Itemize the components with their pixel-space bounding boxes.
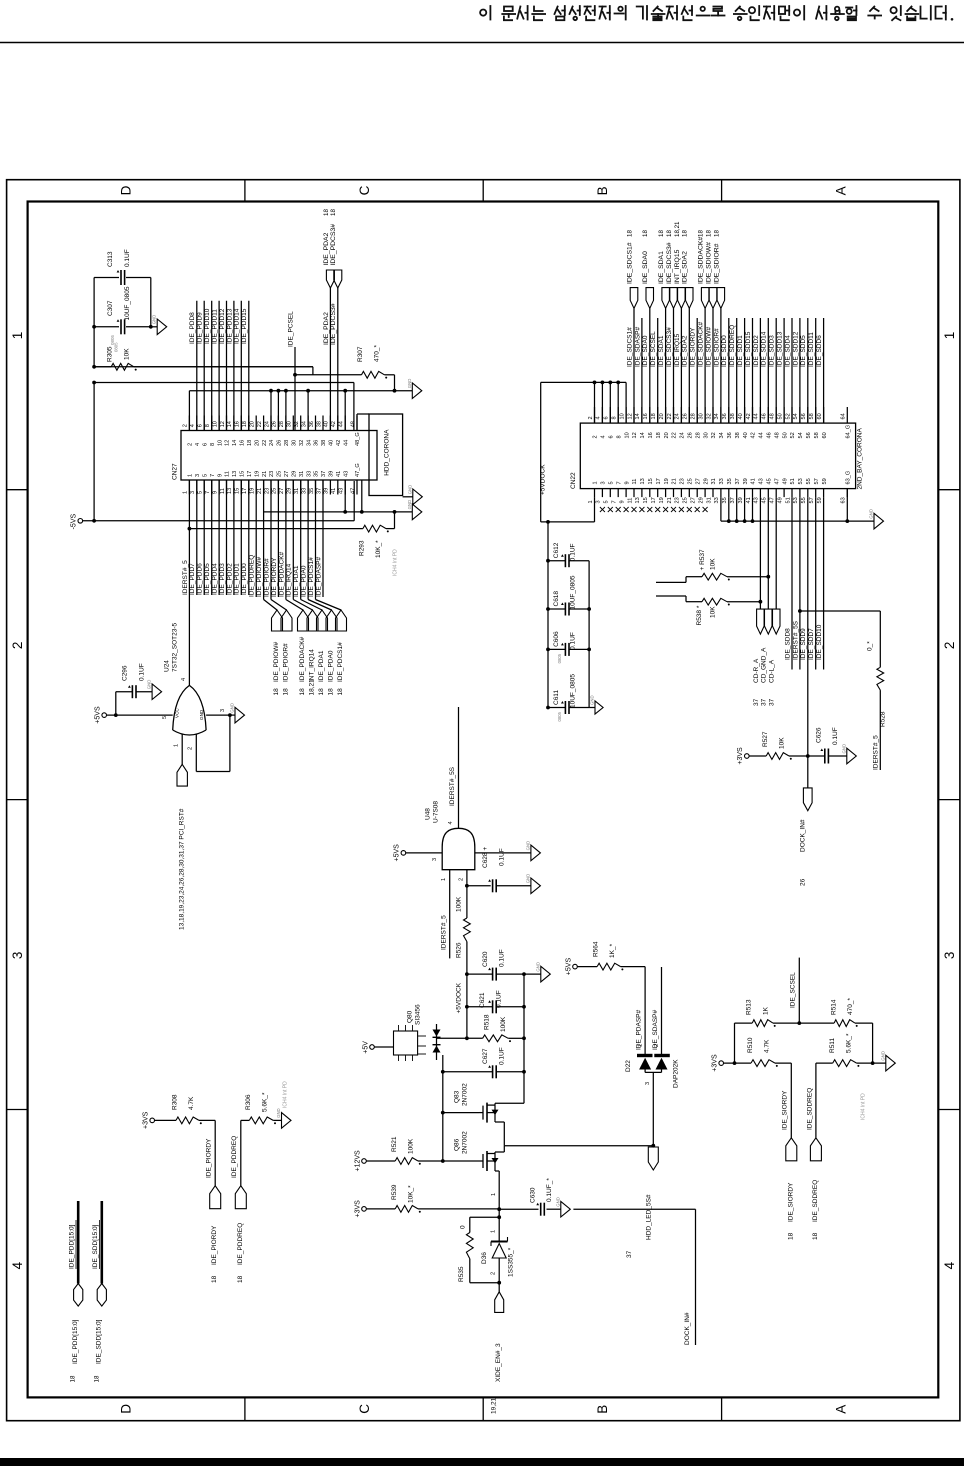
svg-text:31: 31 [294, 488, 300, 494]
svg-text:18: 18 [93, 1375, 100, 1382]
svg-text:IDE_SDIOW#: IDE_SDIOW# [705, 242, 712, 284]
svg-text:60: 60 [817, 413, 823, 419]
svg-text:R528: R528 [880, 711, 887, 727]
svg-text:470_*: 470_* [847, 998, 854, 1015]
svg-text:C606: C606 [553, 631, 560, 647]
svg-text:18: 18 [812, 1232, 819, 1240]
svg-text:15: 15 [235, 488, 241, 494]
svg-text:Q80: Q80 [407, 1010, 414, 1023]
svg-text:GND: GND [555, 1197, 560, 1207]
svg-text:25: 25 [688, 478, 694, 484]
svg-text:10: 10 [619, 413, 625, 419]
svg-text:1: 1 [183, 491, 189, 494]
svg-text:11: 11 [220, 488, 226, 494]
svg-text:33: 33 [306, 471, 312, 477]
svg-text:27: 27 [279, 488, 285, 494]
svg-text:28: 28 [284, 440, 290, 446]
svg-text:R308: R308 [172, 1094, 179, 1110]
svg-text:19: 19 [664, 478, 670, 484]
svg-text:54: 54 [793, 413, 799, 419]
svg-text:IDE_PDA2: IDE_PDA2 [323, 232, 330, 265]
svg-text:IDE_PDDACK#: IDE_PDDACK# [299, 636, 306, 682]
svg-text:10K: 10K [779, 737, 786, 749]
svg-text:R538 *: R538 * [696, 605, 703, 625]
svg-text:IDE_PDD7: IDE_PDD7 [189, 563, 196, 595]
svg-text:C313: C313 [107, 251, 114, 267]
svg-text:+3VS: +3VS [143, 1111, 150, 1129]
svg-text:Q86: Q86 [454, 1138, 461, 1151]
svg-text:38: 38 [321, 440, 327, 446]
svg-text:41: 41 [336, 471, 342, 477]
svg-text:24: 24 [264, 421, 270, 427]
svg-text:45: 45 [762, 497, 768, 503]
svg-text:6: 6 [604, 416, 610, 419]
svg-text:GND: GND [407, 500, 412, 510]
svg-text:IDE_PDD[15:0]: IDE_PDD[15:0] [68, 1224, 75, 1269]
svg-text:IDE_SDDACK#: IDE_SDDACK# [698, 321, 705, 367]
svg-text:+12VS: +12VS [354, 1150, 361, 1172]
svg-text:HDD_CORONA: HDD_CORONA [384, 429, 391, 476]
svg-text:35: 35 [309, 488, 315, 494]
svg-text:10K_*: 10K_* [375, 540, 382, 558]
svg-text:ICH4 Int PD: ICH4 Int PD [393, 549, 399, 576]
svg-text:7: 7 [612, 500, 618, 503]
svg-text:32: 32 [706, 413, 712, 419]
svg-text:3: 3 [601, 481, 607, 484]
svg-text:IDE_SDDREQ: IDE_SDDREQ [812, 1180, 819, 1222]
svg-text:17: 17 [247, 471, 253, 477]
svg-text:3: 3 [432, 858, 438, 861]
svg-text:IDE_PDD11: IDE_PDD11 [212, 309, 219, 344]
svg-text:11: 11 [225, 471, 231, 477]
svg-text:1: 1 [441, 878, 447, 881]
svg-text:43: 43 [343, 471, 349, 477]
svg-text:IDE_PDD0: IDE_PDD0 [241, 563, 248, 595]
svg-text:+5VDOCK: +5VDOCK [539, 464, 546, 495]
svg-text:36: 36 [309, 421, 315, 427]
svg-text:10: 10 [217, 440, 223, 446]
svg-text:18: 18 [658, 230, 665, 237]
svg-text:17: 17 [242, 488, 248, 494]
svg-text:27: 27 [284, 471, 290, 477]
svg-text:2: 2 [491, 1272, 497, 1275]
svg-text:4: 4 [601, 435, 607, 438]
svg-text:44: 44 [754, 413, 760, 419]
svg-text:IDE_SDDACK#: IDE_SDDACK# [698, 237, 705, 284]
svg-text:8: 8 [616, 435, 622, 438]
svg-text:IDERST#_5: IDERST#_5 [873, 735, 880, 770]
svg-text:31: 31 [299, 471, 305, 477]
svg-text:4: 4 [942, 1261, 957, 1269]
svg-text:29: 29 [698, 497, 704, 503]
svg-text:64_G: 64_G [846, 425, 852, 439]
svg-text:33: 33 [301, 488, 307, 494]
svg-text:11: 11 [627, 498, 633, 504]
svg-text:IDE_PDCS3#: IDE_PDCS3# [330, 303, 337, 345]
svg-text:40: 40 [329, 440, 335, 446]
svg-text:GND: GND [590, 695, 595, 705]
svg-text:18: 18 [211, 1275, 218, 1283]
svg-text:2: 2 [458, 878, 464, 881]
svg-text:IDE_SDD13: IDE_SDD13 [777, 331, 784, 367]
svg-text:48: 48 [774, 432, 780, 438]
svg-text:55: 55 [806, 478, 812, 484]
svg-text:4: 4 [596, 416, 602, 419]
svg-text:37: 37 [626, 1250, 633, 1258]
svg-text:23: 23 [264, 488, 270, 494]
svg-text:40: 40 [738, 413, 744, 419]
svg-text:13: 13 [227, 488, 233, 494]
svg-text:U-7S08: U-7S08 [433, 801, 440, 823]
svg-text:25: 25 [277, 471, 283, 477]
svg-text:IDE_PDIOR#: IDE_PDIOR# [263, 558, 270, 597]
svg-text:B: B [595, 1405, 610, 1414]
svg-text:IDE_PDCS1#: IDE_PDCS1# [308, 557, 315, 597]
svg-text:0.1UF: 0.1UF [499, 949, 506, 967]
svg-text:26: 26 [272, 421, 278, 427]
svg-text:2N7002: 2N7002 [462, 1083, 469, 1106]
svg-text:100K: 100K [455, 896, 462, 912]
svg-text:+3VS: +3VS [354, 1200, 361, 1218]
svg-text:37: 37 [321, 471, 327, 477]
svg-text:IDE_PDIOW#: IDE_PDIOW# [273, 642, 280, 682]
svg-text:19: 19 [254, 471, 260, 477]
svg-text:CD-R_A: CD-R_A [753, 658, 760, 683]
svg-text:IDE_PDA0: IDE_PDA0 [301, 565, 308, 597]
svg-text:18: 18 [698, 230, 705, 237]
svg-text:0_*: 0_* [867, 641, 874, 651]
svg-text:100K: 100K [500, 1016, 507, 1032]
svg-text:12: 12 [225, 440, 231, 446]
svg-text:18: 18 [237, 1275, 244, 1283]
svg-text:0.1UF_*: 0.1UF_* [546, 1178, 553, 1202]
svg-text:20: 20 [250, 421, 256, 427]
svg-text:D22: D22 [625, 1060, 632, 1072]
svg-text:0.1UF: 0.1UF [499, 848, 506, 866]
svg-text:10K: 10K [124, 348, 131, 360]
svg-text:4: 4 [190, 424, 196, 427]
svg-text:IDE_SDD15: IDE_SDD15 [745, 331, 752, 367]
svg-text:CD-L_A: CD-L_A [769, 659, 776, 683]
svg-text:A: A [834, 186, 849, 195]
svg-text:48: 48 [770, 413, 776, 419]
svg-text:35: 35 [722, 497, 728, 503]
svg-text:IDE_SDIOR#: IDE_SDIOR# [713, 243, 720, 284]
svg-text:29: 29 [292, 471, 298, 477]
svg-text:0: 0 [460, 1225, 467, 1229]
svg-text:4.7K: 4.7K [188, 1096, 195, 1110]
svg-text:34: 34 [719, 432, 725, 438]
svg-text:+5VS: +5VS [95, 706, 102, 724]
svg-text:IDE_PDIOW#: IDE_PDIOW# [256, 557, 263, 597]
svg-text:7: 7 [205, 491, 211, 494]
svg-text:18: 18 [242, 421, 248, 427]
svg-text:+5V: +5V [362, 1041, 369, 1054]
svg-text:R535: R535 [458, 1266, 465, 1282]
svg-text:0.1UF: 0.1UF [496, 990, 503, 1008]
svg-text:50: 50 [782, 432, 788, 438]
svg-text:IDE_PDDREQ: IDE_PDDREQ [249, 555, 256, 597]
svg-text:IDE_PDD15: IDE_PDD15 [241, 308, 248, 344]
svg-text:1: 1 [10, 332, 25, 340]
svg-text:IDE_SDD1: IDE_SDD1 [737, 335, 744, 367]
svg-text:18: 18 [273, 688, 280, 696]
svg-text:21: 21 [257, 488, 263, 494]
svg-text:18: 18 [656, 432, 662, 438]
svg-text:58: 58 [814, 432, 820, 438]
svg-text:25: 25 [683, 497, 689, 503]
svg-text:18: 18 [651, 413, 657, 419]
svg-text:37: 37 [735, 478, 741, 484]
svg-text:R526: R526 [455, 942, 462, 958]
svg-text:R514: R514 [831, 999, 838, 1015]
svg-text:42: 42 [751, 432, 757, 438]
svg-text:5.6K_*: 5.6K_* [846, 1033, 853, 1053]
svg-text:0805: 0805 [110, 334, 115, 345]
svg-text:8: 8 [210, 443, 216, 446]
svg-text:IDERST#_5: IDERST#_5 [182, 560, 189, 595]
svg-text:IDE_SDD14: IDE_SDD14 [761, 331, 768, 367]
svg-text:18: 18 [787, 1232, 794, 1240]
svg-text:47: 47 [774, 478, 780, 484]
svg-text:IDERST#_5: IDERST#_5 [440, 915, 447, 950]
svg-text:57: 57 [814, 478, 820, 484]
svg-text:7: 7 [210, 474, 216, 477]
svg-text:XIDE_EN#_3: XIDE_EN#_3 [495, 1343, 502, 1382]
svg-text:U48: U48 [425, 808, 432, 820]
svg-text:IDE_SCSEL: IDE_SCSEL [790, 972, 797, 1008]
svg-text:+3VS: +3VS [712, 1054, 719, 1072]
svg-text:51: 51 [790, 478, 796, 484]
svg-text:6: 6 [202, 443, 208, 446]
svg-text:37: 37 [761, 698, 768, 706]
svg-text:43: 43 [339, 488, 345, 494]
svg-text:14: 14 [232, 440, 238, 446]
svg-text:3: 3 [942, 952, 957, 960]
svg-text:41: 41 [751, 478, 757, 484]
svg-text:C611: C611 [553, 690, 560, 705]
svg-text:1K_*: 1K_* [609, 943, 616, 958]
svg-text:R513: R513 [746, 999, 753, 1015]
svg-text:IDE_PDD9: IDE_PDD9 [197, 312, 204, 344]
svg-text:IDE_SDCS3#: IDE_SDCS3# [666, 242, 673, 284]
svg-text:1: 1 [491, 1230, 497, 1233]
svg-text:29: 29 [287, 488, 293, 494]
svg-text:41: 41 [331, 488, 337, 494]
svg-text:7ST32_SOT23-5: 7ST32_SOT23-5 [172, 622, 179, 672]
svg-text:13: 13 [232, 471, 238, 477]
svg-text:5: 5 [202, 474, 208, 477]
svg-text:14: 14 [640, 432, 646, 438]
svg-text:IDE_PDDREQ: IDE_PDDREQ [237, 1223, 244, 1265]
svg-text:IDE_SDD5: IDE_SDD5 [800, 335, 807, 367]
svg-text:42: 42 [746, 413, 752, 419]
svg-text:53: 53 [798, 478, 804, 484]
svg-text:GND: GND [276, 1108, 281, 1118]
svg-text:INT_IRQ15: INT_IRQ15 [674, 249, 681, 284]
svg-text:100K: 100K [408, 1138, 415, 1154]
svg-text:36: 36 [314, 440, 320, 446]
svg-text:18: 18 [705, 230, 712, 237]
svg-text:39: 39 [324, 488, 330, 494]
svg-text:37: 37 [753, 698, 760, 706]
svg-text:17: 17 [651, 497, 657, 503]
svg-text:18: 18 [328, 688, 335, 696]
svg-text:43: 43 [759, 478, 765, 484]
svg-text:15: 15 [240, 471, 246, 477]
svg-text:IDE_SDDREQ: IDE_SDDREQ [806, 1088, 813, 1130]
svg-text:46: 46 [762, 413, 768, 419]
svg-text:9: 9 [217, 474, 223, 477]
svg-text:19,21: 19,21 [491, 1397, 498, 1414]
svg-text:2N7002: 2N7002 [462, 1131, 469, 1154]
svg-text:41: 41 [746, 497, 752, 503]
svg-text:+5VS: +5VS [565, 958, 572, 976]
svg-text:IDE_SDD0: IDE_SDD0 [721, 335, 728, 367]
svg-text:2: 2 [188, 747, 194, 750]
svg-text:24: 24 [675, 413, 681, 419]
svg-text:34: 34 [714, 413, 720, 419]
svg-text:57: 57 [809, 497, 815, 503]
svg-text:IDE_PDIOR#: IDE_PDIOR# [283, 643, 290, 682]
svg-text:IDE_SIORDY: IDE_SIORDY [787, 1182, 794, 1222]
svg-text:0.1UF: 0.1UF [570, 543, 577, 561]
svg-text:IDE_SDD3: IDE_SDD3 [769, 335, 776, 367]
svg-text:48_G: 48_G [355, 432, 361, 446]
svg-text:GND: GND [230, 703, 235, 713]
svg-text:IDE_PDD2: IDE_PDD2 [226, 563, 233, 595]
svg-text:7: 7 [616, 481, 622, 484]
svg-text:21: 21 [672, 478, 678, 484]
svg-text:IDE_PDD13: IDE_PDD13 [226, 308, 233, 344]
svg-text:18,21: 18,21 [309, 679, 316, 696]
svg-text:IDE_SDD11: IDE_SDD11 [808, 332, 815, 367]
svg-text:IDE_PDCS1#: IDE_PDCS1# [337, 642, 344, 682]
svg-text:2ND_BAY_CORONA: 2ND_BAY_CORONA [857, 428, 864, 490]
svg-text:U24: U24 [164, 660, 171, 672]
svg-text:29: 29 [703, 478, 709, 484]
svg-text:20: 20 [659, 413, 665, 419]
svg-text:R527: R527 [762, 731, 769, 747]
svg-text:42: 42 [331, 421, 337, 427]
svg-text:13: 13 [640, 478, 646, 484]
svg-text:R510: R510 [747, 1037, 754, 1053]
svg-text:9: 9 [624, 481, 630, 484]
svg-text:DAP202K: DAP202K [673, 1059, 680, 1088]
svg-text:28: 28 [279, 421, 285, 427]
svg-text:19: 19 [659, 497, 665, 503]
svg-text:GND: GND [199, 709, 204, 720]
svg-text:IDE_PDD3: IDE_PDD3 [219, 563, 226, 595]
svg-text:1K: 1K [763, 1006, 770, 1015]
svg-text:45: 45 [767, 478, 773, 484]
svg-text:IDE_SDA2: IDE_SDA2 [682, 335, 689, 367]
svg-text:10UF_0805: 10UF_0805 [570, 575, 577, 609]
svg-text:58: 58 [809, 413, 815, 419]
svg-text:22: 22 [667, 413, 673, 419]
svg-text:IDE_SIORDY: IDE_SIORDY [690, 327, 697, 367]
svg-text:63_G: 63_G [846, 471, 852, 485]
svg-text:0.1UF: 0.1UF [139, 663, 146, 681]
svg-text:2: 2 [593, 435, 599, 438]
svg-text:IDE_PDASP#: IDE_PDASP# [315, 557, 322, 597]
svg-text:37: 37 [730, 497, 736, 503]
svg-text:28: 28 [695, 432, 701, 438]
svg-text:28: 28 [691, 413, 697, 419]
svg-text:IDE_SCSEL: IDE_SCSEL [650, 331, 657, 367]
svg-text:0805: 0805 [557, 653, 562, 663]
svg-text:49: 49 [782, 478, 788, 484]
svg-text:GND: GND [152, 315, 157, 325]
svg-text:R305: R305 [107, 346, 114, 362]
svg-text:0.1UF: 0.1UF [832, 727, 839, 745]
svg-text:23: 23 [675, 497, 681, 503]
svg-text:4: 4 [448, 821, 454, 824]
svg-text:IDE_PDD4: IDE_PDD4 [212, 563, 219, 595]
svg-text:0.1UF: 0.1UF [124, 249, 131, 267]
svg-text:8: 8 [205, 424, 211, 427]
svg-text:1: 1 [174, 744, 180, 747]
svg-text:IDE_SDD6: IDE_SDD6 [816, 335, 823, 367]
svg-text:30: 30 [287, 421, 293, 427]
svg-text:3: 3 [220, 709, 226, 712]
svg-text:37: 37 [769, 698, 776, 706]
svg-text:C: C [357, 185, 372, 195]
svg-text:3: 3 [190, 491, 196, 494]
svg-text:39: 39 [738, 497, 744, 503]
svg-text:IDE_SDA0: IDE_SDA0 [642, 335, 649, 367]
svg-text:Q83: Q83 [454, 1090, 461, 1103]
svg-text:35: 35 [727, 478, 733, 484]
svg-text:18: 18 [318, 688, 325, 696]
svg-text:+3VS: +3VS [737, 747, 744, 765]
svg-text:0.1UF: 0.1UF [570, 632, 577, 650]
svg-text:46: 46 [767, 432, 773, 438]
svg-text:23: 23 [680, 478, 686, 484]
svg-text:39: 39 [329, 471, 335, 477]
svg-text:2: 2 [183, 424, 189, 427]
svg-text:IDE_PIORDY: IDE_PIORDY [211, 1225, 218, 1265]
svg-text:IDE_SDCS1#: IDE_SDCS1# [626, 242, 633, 284]
svg-text:IDE_SDD10: IDE_SDD10 [816, 624, 823, 660]
svg-text:21: 21 [262, 471, 268, 477]
svg-text:ICH4 Int PD: ICH4 Int PD [861, 1093, 867, 1120]
svg-text:26: 26 [800, 878, 807, 886]
svg-text:18: 18 [666, 230, 673, 237]
svg-text:IDE_PDD[15:0]: IDE_PDD[15:0] [72, 1319, 79, 1364]
svg-text:5: 5 [198, 491, 204, 494]
svg-text:CD_GND_A: CD_GND_A [761, 647, 768, 683]
svg-text:IDE_SDASP#: IDE_SDASP# [634, 327, 641, 367]
svg-text:IDE_SDDREQ: IDE_SDDREQ [729, 325, 736, 367]
svg-text:5: 5 [609, 481, 615, 484]
svg-text:C628 +: C628 + [482, 847, 489, 868]
svg-text:30: 30 [703, 432, 709, 438]
svg-text:15: 15 [643, 497, 649, 503]
svg-text:18,21: 18,21 [674, 221, 681, 237]
svg-text:IDE_SDD7: IDE_SDD7 [808, 628, 815, 660]
svg-text:2: 2 [942, 642, 957, 650]
svg-text:35: 35 [314, 471, 320, 477]
svg-text:44: 44 [339, 421, 345, 427]
svg-text:C630: C630 [530, 1187, 537, 1203]
svg-text:26: 26 [688, 432, 694, 438]
svg-text:12: 12 [632, 432, 638, 438]
svg-text:6: 6 [198, 424, 204, 427]
svg-text:39: 39 [743, 478, 749, 484]
svg-text:3: 3 [10, 952, 25, 960]
svg-text:IDE_SDD9: IDE_SDD9 [800, 628, 807, 660]
